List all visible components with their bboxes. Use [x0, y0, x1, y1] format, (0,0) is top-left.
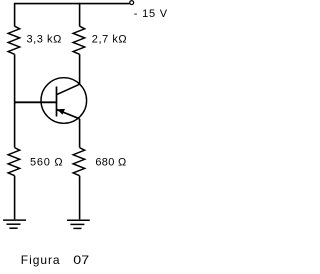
wire middle rail emitter to R4: [79, 119, 81, 148]
wire middle rail top lead: [79, 3, 81, 27]
wire left rail top lead: [14, 3, 16, 27]
svg-text:3,3 kΩ: 3,3 kΩ: [27, 33, 62, 45]
label 560 Ohm: [30, 156, 63, 168]
svg-text:2,7 kΩ: 2,7 kΩ: [92, 33, 127, 45]
caption Figura 07: [21, 253, 90, 267]
label 680 Ohm: [95, 156, 126, 168]
ground left: [3, 220, 26, 228]
svg-text:- 15 V: - 15 V: [134, 8, 168, 20]
wire left rail middle (R1 to base tap to R3): [14, 54, 16, 147]
svg-text:680 Ω: 680 Ω: [95, 156, 126, 168]
label 3,3 kOhm: [27, 33, 62, 45]
transistor Q1 base lead wire: [15, 101, 57, 103]
transistor Q1 body circle: [41, 78, 87, 124]
wire top horizontal bus: [15, 3, 130, 5]
svg-text:Figura: Figura: [21, 253, 61, 267]
resistor R4 680 Ohm zigzag: [73, 148, 85, 176]
transistor Q1 emitter lead: [57, 110, 80, 119]
transistor Q1 emitter arrowhead: [57, 109, 65, 115]
ground right (bars slightly left of lead): [67, 220, 90, 228]
transistor Q1 PNP: [15, 78, 87, 124]
resistor R1 3,3 kOhm zigzag: [8, 26, 20, 54]
transistor Q1 base bar: [56, 87, 58, 117]
resistor R3 560 Ohm zigzag: [8, 148, 20, 176]
svg-text:560 Ω: 560 Ω: [30, 156, 63, 168]
wire left rail bottom lead to ground: [14, 176, 16, 220]
svg-text:07: 07: [73, 253, 89, 267]
wire middle rail bottom lead to ground: [79, 176, 81, 220]
resistor R2 2,7 kOhm zigzag: [73, 26, 85, 54]
wire middle rail to collector junction: [79, 54, 81, 84]
transistor Q1 collector lead: [57, 84, 80, 95]
label 2,7 kOhm: [92, 33, 127, 45]
terminal -15V open circle: [130, 1, 134, 5]
label - 15 V: [134, 8, 168, 20]
